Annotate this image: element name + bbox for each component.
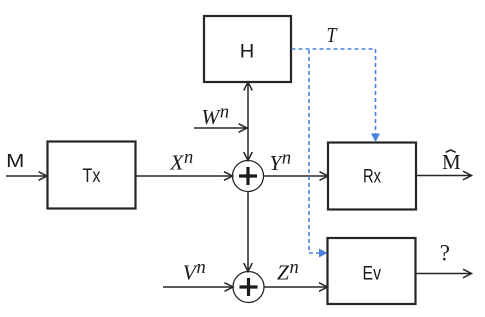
wire Wn into junction (194, 124, 247, 133)
block Ev (328, 238, 416, 304)
wire M input to Tx (6, 172, 47, 181)
adder node S1 (upper sum circle) (233, 161, 264, 192)
block Rx (328, 143, 416, 210)
wire Vn into S2 (163, 283, 233, 292)
svg-text:T: T (327, 23, 339, 47)
dashed wire T down into Rx (371, 49, 380, 142)
wire Tx to S1 (136, 172, 233, 181)
wire S1 to Rx (Yn) (264, 172, 329, 181)
svg-text:Ev: Ev (363, 262, 382, 284)
dashed wire T horizontal from H (292, 48, 376, 50)
block H (204, 16, 291, 82)
block Tx (48, 142, 136, 209)
dashed wire T down into Ev (309, 50, 328, 258)
svg-text:H: H (240, 41, 255, 63)
svg-text:Tx: Tx (83, 165, 101, 187)
wire S2 to Ev (Zn) (264, 283, 328, 292)
svg-text:Rx: Rx (363, 166, 381, 188)
wire Rx output (416, 171, 472, 180)
svg-text:M: M (442, 150, 461, 174)
label M-hat (442, 150, 461, 174)
adder node S2 (lower sum circle) (233, 272, 264, 303)
wire vertical junction to H (arrow up) and to S1 (arrow down) (244, 82, 253, 161)
svg-text:M: M (6, 151, 24, 171)
wire Ev output (416, 269, 472, 278)
svg-text:?: ? (440, 241, 450, 266)
wire S1 down to S2 (244, 192, 253, 272)
